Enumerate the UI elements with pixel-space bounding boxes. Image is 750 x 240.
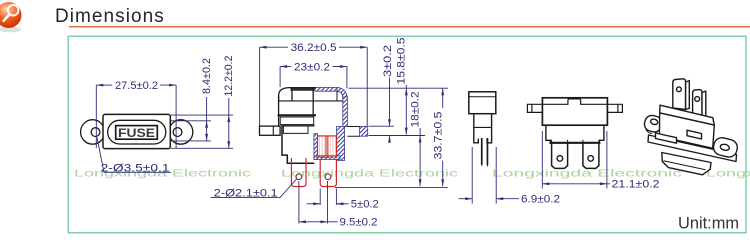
view A right ear hole xyxy=(173,128,182,137)
view B right terminal xyxy=(320,160,336,187)
view E blade left hole xyxy=(677,87,682,92)
dim 6.9 arrows xyxy=(465,197,472,200)
view E right flange slot hole xyxy=(720,143,730,151)
icon magnifier glass xyxy=(8,5,19,16)
dim 9.5 arrows xyxy=(299,220,306,223)
icon magnifier handle xyxy=(4,15,10,21)
view D blade roots xyxy=(552,140,599,143)
dim 21.1 extension lines xyxy=(541,131,543,189)
view E blade left side face xyxy=(686,81,690,110)
svg-text:23±0.2: 23±0.2 xyxy=(294,61,330,73)
svg-text:FUSE: FUSE xyxy=(118,128,155,140)
view D right blade hole xyxy=(588,156,594,162)
dim 36.2 extension lines xyxy=(259,47,261,125)
dim 27.5 extension line right xyxy=(175,85,177,148)
dim 36.2 line segments xyxy=(260,46,288,48)
view C shoulder line xyxy=(474,126,492,128)
view A left ear xyxy=(81,120,105,145)
view B red dashes on channel bottom xyxy=(316,156,339,158)
view A right ear xyxy=(169,120,193,145)
view D left blade xyxy=(552,143,568,169)
dim 5 extension lines xyxy=(319,189,321,206)
dim 6.9 extension lines xyxy=(471,147,473,204)
view B rib edge verticals xyxy=(292,88,313,116)
leader 2-2.1 underline xyxy=(211,179,298,198)
view B fuse red mid line xyxy=(325,136,327,156)
svg-text:Unit:mm: Unit:mm xyxy=(678,215,739,233)
dim 18 arrows xyxy=(419,136,422,143)
svg-text:21.1±0.2: 21.1±0.2 xyxy=(612,178,660,190)
ext line tab bottom xyxy=(369,135,426,137)
view B right mounting tab outline xyxy=(347,127,359,137)
dim 23 line segments xyxy=(280,66,291,68)
dim 27.5 line segments xyxy=(96,84,112,86)
view B right mounting tab hatched end xyxy=(360,127,368,137)
svg-text:3±0.2: 3±0.2 xyxy=(382,45,394,77)
view C leg 1 xyxy=(481,138,483,167)
view A body rectangle xyxy=(103,114,170,148)
orange underline xyxy=(69,26,750,28)
view A inner pill xyxy=(108,120,166,144)
view B U-channel hatched left wall xyxy=(314,134,318,160)
view B fuse section red box xyxy=(318,136,337,156)
dim 21.1 line xyxy=(542,183,607,185)
ext line terminal bottom xyxy=(335,186,448,188)
view D right side tab xyxy=(607,104,622,112)
view C body sides with feet xyxy=(474,114,479,143)
svg-text:2-Ø3.5±0.1: 2-Ø3.5±0.1 xyxy=(101,163,170,175)
view B left mounting tab xyxy=(260,126,281,135)
dim 3 arrows xyxy=(388,119,391,126)
view E blade left front face xyxy=(673,79,686,110)
dim 6.9 line tails xyxy=(459,198,473,200)
view B U-channel hatched bottom xyxy=(314,156,340,160)
svg-text:6.9±0.2: 6.9±0.2 xyxy=(521,194,560,206)
dim 8.4 arrows xyxy=(205,121,208,128)
view E lip slab right xyxy=(687,130,702,139)
dim 8.4 extension lines xyxy=(171,120,211,122)
svg-text:36.2±0.5: 36.2±0.5 xyxy=(291,42,337,54)
view D left blade hole xyxy=(557,156,563,162)
view B left tab divider xyxy=(272,126,274,135)
view E lip slab left xyxy=(656,133,677,143)
view B cover hatched lower column xyxy=(337,127,345,161)
dim 12.2 extension lines xyxy=(171,114,233,116)
view B cap dark rib xyxy=(292,88,313,91)
view D skirt xyxy=(546,125,604,143)
dim 27.5 extension line left xyxy=(95,85,97,148)
view B cover hatched corner xyxy=(337,87,347,98)
view E left flange xyxy=(643,114,664,134)
view A FUSE box xyxy=(116,126,158,140)
view B cap outline xyxy=(279,88,315,101)
dim 9.5 line xyxy=(299,221,328,223)
view E skirt bottom inner edge xyxy=(664,161,706,170)
svg-text:12.2±0.2: 12.2±0.2 xyxy=(223,55,235,96)
view E left flange hole xyxy=(650,118,659,125)
view B left terminal hole xyxy=(296,174,302,180)
view B horizontal shelf line xyxy=(279,100,343,102)
view B cavity band xyxy=(283,127,308,134)
view B thick mid line xyxy=(279,114,315,116)
dim 5 arrows xyxy=(313,202,320,205)
view E right flange xyxy=(712,136,739,159)
svg-text:33.7±0.5: 33.7±0.5 xyxy=(433,112,445,160)
view B left terminal xyxy=(291,158,306,187)
view C cap inner line xyxy=(469,96,496,98)
svg-text:Longxingda Electronic: Longxingda Electronic xyxy=(706,169,750,180)
dim 21.1 arrows xyxy=(542,182,549,185)
dim 33.7 arrows xyxy=(441,88,444,95)
view D body xyxy=(542,98,607,125)
view C cap xyxy=(469,92,496,114)
icon orange sphere xyxy=(0,2,22,28)
view E skirt bucket xyxy=(662,153,711,175)
view A left ear hole xyxy=(91,128,100,137)
dim 3 line xyxy=(389,78,391,127)
teal border box xyxy=(68,36,746,233)
dim 12.2 line xyxy=(228,98,230,148)
dim 23 extension lines xyxy=(279,67,281,88)
view C leg 2 xyxy=(487,138,489,167)
dim 23 arrows xyxy=(280,65,287,68)
dim 5 line tails xyxy=(307,203,321,205)
svg-text:27.5±0.2: 27.5±0.2 xyxy=(115,80,158,92)
view B right terminal hole xyxy=(325,174,331,180)
view B middle band xyxy=(280,117,314,125)
view E body front face xyxy=(659,113,714,148)
view B cover hatched top band xyxy=(315,87,338,91)
view E blade right front face xyxy=(693,90,702,118)
dim 9.5 extension lines xyxy=(298,181,300,224)
view E left flange front band xyxy=(645,128,652,134)
svg-text:Longxingda Electronic: Longxingda Electronic xyxy=(281,169,458,180)
svg-text:18±0.2: 18±0.2 xyxy=(410,91,422,127)
view B inner vertical at cover xyxy=(336,91,338,101)
dim 36.2 arrows xyxy=(260,46,267,49)
view B band lower line xyxy=(283,125,314,127)
svg-text:2-Ø2.1±0.1: 2-Ø2.1±0.1 xyxy=(214,187,278,199)
dim 15.8 line xyxy=(405,85,407,135)
dim 8.4 line xyxy=(206,97,208,141)
view E blade right side face xyxy=(702,91,706,117)
leader 2-3.5 xyxy=(97,138,171,173)
view B lower-left body outline xyxy=(282,126,314,164)
view D right blade xyxy=(583,143,599,169)
svg-text:8.4±0.2: 8.4±0.2 xyxy=(201,58,213,94)
view E mounting plate slab xyxy=(648,135,737,162)
view E body top face xyxy=(660,105,715,125)
dim 15.8 arrows xyxy=(405,88,408,95)
view E blade right hole xyxy=(695,97,700,102)
view D left side tab xyxy=(527,104,542,112)
svg-text:5±0.2: 5±0.2 xyxy=(351,199,379,211)
view D skirt bottom heavy line xyxy=(551,142,600,144)
svg-text:15.8±0.5: 15.8±0.5 xyxy=(395,38,407,85)
ext line tab top xyxy=(369,125,395,127)
view B cover hatched right column xyxy=(343,97,348,127)
icon shadow xyxy=(0,27,22,33)
dim 12.2 arrows xyxy=(227,115,230,122)
ext line cap top to right xyxy=(349,87,449,89)
view D inner top line with bump xyxy=(542,99,607,104)
svg-text:9.5±0.2: 9.5±0.2 xyxy=(340,217,378,229)
view B left wall xyxy=(278,96,280,126)
svg-text:Dimensions: Dimensions xyxy=(55,6,165,27)
dim 27.5 arrows xyxy=(96,84,103,87)
dim 33.7 line segments xyxy=(442,88,444,108)
dim 18 line xyxy=(419,128,421,186)
